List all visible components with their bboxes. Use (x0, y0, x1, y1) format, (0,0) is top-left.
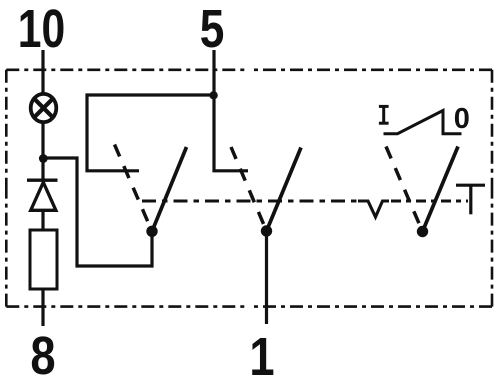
node B junction dot (node 5) (209, 91, 217, 99)
svg-text:1: 1 (249, 326, 274, 375)
detent latch symbol (456, 185, 485, 214)
position label I (379, 106, 389, 123)
terminal 8 lead wire (41, 289, 44, 326)
switch pole S2 blade (267, 148, 302, 232)
resistor R1 (30, 230, 57, 289)
switch pole S2 common junction dot (261, 225, 272, 236)
switch housing outline (dash-dot enclosure) (6, 70, 492, 307)
terminal 10 lead wire (41, 50, 44, 93)
switch pole S2 alternate position (dashed blade) (231, 147, 267, 231)
svg-text:5: 5 (200, 0, 225, 59)
wire node B to switch S2 fixed contact (214, 95, 248, 171)
mechanical coupling link right section (dash-dot) (391, 199, 468, 202)
node A junction dot (39, 154, 48, 163)
terminal 1 lead wire (265, 231, 268, 324)
svg-text:8: 8 (30, 325, 55, 375)
wire node B to switch S1 fixed contact (87, 95, 214, 171)
switch pole S1 blade (152, 147, 187, 231)
diode V1 (27, 180, 58, 210)
switch pole S1 alternate position (dashed blade) (115, 145, 153, 232)
svg-text:0: 0 (454, 103, 470, 135)
wire diode to resistor (41, 210, 44, 231)
mechanical coupling link (dash-dot) (142, 199, 360, 202)
actuator S3 pivot dot (417, 226, 428, 237)
actuator S3 blade (423, 147, 459, 232)
wire node A to diode (41, 158, 44, 180)
lamp E1 (indicator bulb) (31, 94, 57, 122)
wire lamp to node A (41, 124, 44, 159)
wire node A to switch S1 common (43, 158, 152, 266)
spring notch in coupling link (358, 201, 389, 217)
switch pole S1 common junction dot (146, 226, 157, 237)
actuator S3 alternate position (dashed blade) (386, 147, 423, 232)
position indicator lever travel (384, 111, 462, 134)
terminal 5 lead wire (212, 50, 215, 95)
